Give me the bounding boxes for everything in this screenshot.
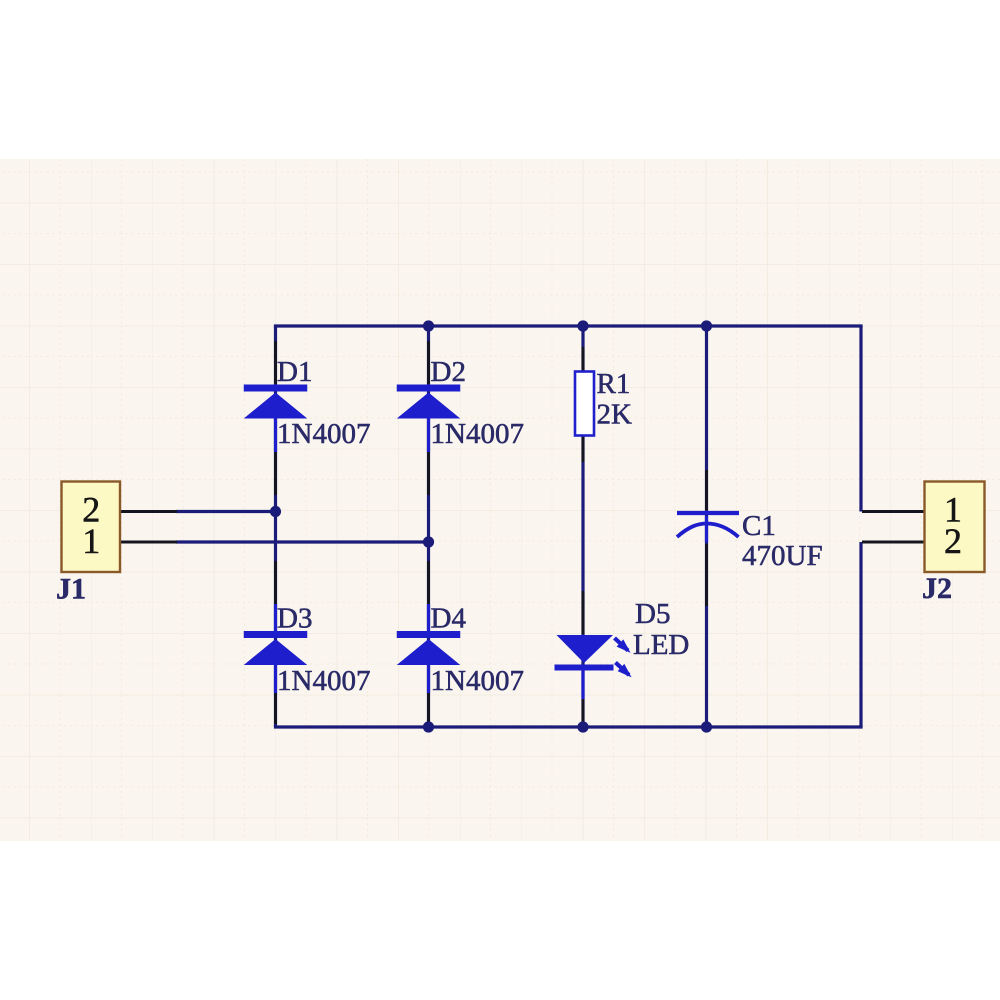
svg-text:D3: D3 — [277, 603, 312, 635]
svg-text:1N4007: 1N4007 — [431, 665, 524, 697]
svg-text:1N4007: 1N4007 — [277, 665, 370, 697]
svg-text:J1: J1 — [56, 573, 86, 606]
svg-text:D2: D2 — [431, 356, 466, 388]
svg-text:470UF: 470UF — [742, 540, 823, 572]
svg-text:J2: J2 — [922, 572, 952, 605]
svg-text:LED: LED — [633, 629, 689, 661]
svg-text:2: 2 — [944, 521, 962, 561]
svg-text:R1: R1 — [597, 368, 631, 400]
svg-text:1: 1 — [82, 521, 100, 561]
svg-text:2K: 2K — [597, 399, 633, 431]
svg-text:1N4007: 1N4007 — [277, 418, 370, 450]
svg-text:D4: D4 — [431, 603, 467, 635]
svg-text:C1: C1 — [742, 510, 776, 542]
svg-text:1N4007: 1N4007 — [431, 418, 524, 450]
svg-text:D5: D5 — [635, 598, 670, 630]
svg-text:D1: D1 — [277, 356, 312, 388]
